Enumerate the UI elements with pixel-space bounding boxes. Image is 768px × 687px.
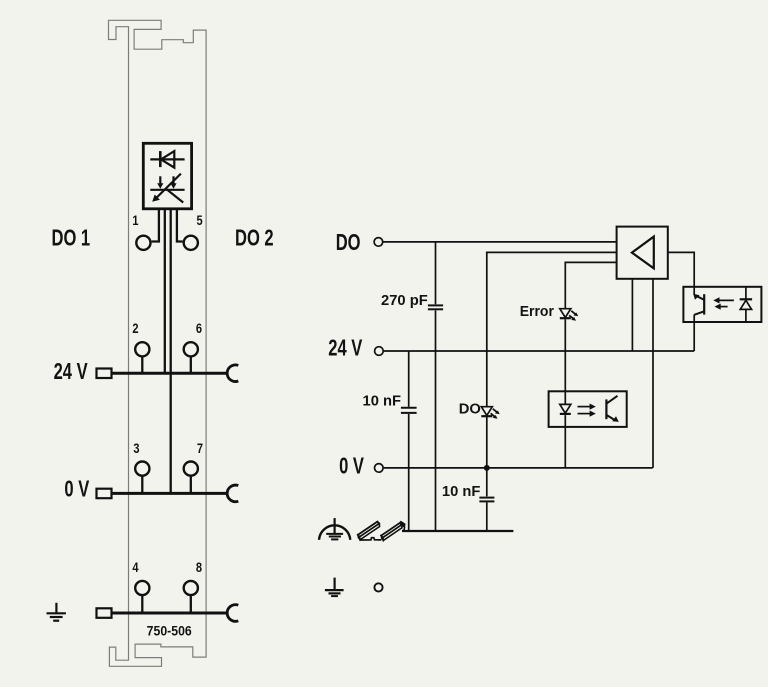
shield rail (402, 530, 513, 532)
pin 3 with stub to 0V rail (141, 476, 143, 494)
LED in optocoupler U4 (560, 404, 571, 414)
wire amplifier lower-left leg to 24V rail (631, 279, 633, 351)
node 0V terminal (375, 464, 384, 473)
svg-text:Error: Error (520, 303, 554, 320)
capacitor 10 nF lower (479, 498, 494, 502)
amplifier U2 box (617, 227, 668, 279)
chassis ground symbol with arc (319, 518, 350, 540)
earth ground symbol (bottom) (325, 578, 344, 597)
svg-text:2: 2 (132, 320, 138, 337)
svg-text:DO 1: DO 1 (52, 226, 91, 251)
24V rail (112, 372, 227, 375)
0V rail (112, 492, 227, 495)
wire 10nF upper branch vertical (408, 351, 410, 531)
svg-text:24 V: 24 V (54, 359, 89, 384)
light arrows in U4 (578, 404, 596, 417)
ground clamp contact (227, 605, 238, 622)
svg-text:10 nF: 10 nF (442, 483, 481, 500)
0V field terminal square (97, 489, 112, 499)
node DO terminal (374, 238, 383, 247)
wire 0V rail (384, 467, 653, 469)
wire 24V rail (384, 350, 695, 352)
LED Error with emission arrows (560, 309, 578, 321)
wire from block to pin 5 (177, 209, 183, 242)
svg-text:3: 3 (133, 440, 139, 457)
electronics block U1 (143, 143, 191, 209)
LED diode in U3 (740, 287, 752, 322)
pin 4 with stub to ground rail (141, 595, 143, 613)
svg-text:DO 2: DO 2 (235, 226, 274, 251)
svg-text:6: 6 (196, 320, 202, 337)
svg-text:750-506: 750-506 (147, 623, 192, 639)
optocoupler U4 box (middle) (549, 391, 627, 427)
LED DO with emission arrows (481, 407, 499, 419)
pin 6 with stub to 24V rail (190, 357, 192, 374)
wire DO line to amplifier (383, 241, 616, 243)
wire amplifier feedback line B (487, 252, 617, 253)
ground symbol label left of module (47, 603, 66, 621)
terminal circle (bottom) (374, 583, 382, 591)
wire optocoupler U3 emitter to 24V rail (693, 315, 695, 351)
24V clamp contact (227, 365, 238, 382)
wire from block to pin 1 (152, 209, 159, 242)
svg-text:10 nF: 10 nF (362, 392, 401, 409)
pin 8 with stub to ground rail (190, 595, 192, 613)
pin 7 with stub to 0V rail (190, 476, 192, 494)
ground rail (112, 612, 227, 615)
wire from block to 0V rail (170, 209, 172, 494)
pin 2 with stub to 24V rail (141, 357, 143, 374)
svg-text:8: 8 (196, 559, 202, 576)
0V clamp contact (227, 485, 238, 502)
svg-text:0 V: 0 V (64, 477, 89, 502)
optocoupler U3 box (top right) (683, 287, 761, 322)
capacitor 10 nF upper (401, 408, 417, 413)
svg-text:24 V: 24 V (328, 336, 363, 361)
light arrows in U3 (713, 297, 734, 309)
wire Error branch vertical (564, 262, 566, 468)
junction dot 0V rail (484, 465, 490, 471)
diode D1 inside block (150, 151, 184, 168)
pin 5 (184, 236, 198, 250)
ground field terminal square (97, 608, 112, 618)
24V field terminal square (97, 369, 112, 379)
wire amplifier lower-right leg to 0V rail (652, 279, 654, 468)
module 750-506 housing outline (109, 20, 207, 666)
wire amplifier output to optocoupler U3 (668, 252, 694, 294)
svg-text:4: 4 (132, 559, 138, 576)
svg-text:DO: DO (459, 400, 481, 417)
suppressor diodes with arrows inside block (150, 174, 184, 203)
amplifier U2 triangle (632, 237, 654, 269)
wire 270pF branch vertical (435, 242, 437, 531)
svg-text:270 pF: 270 pF (381, 292, 428, 309)
wire DO-LED branch vertical (486, 252, 488, 531)
capacitor 270 pF (428, 305, 443, 309)
pin 1 (136, 236, 150, 250)
svg-text:DO: DO (336, 230, 361, 255)
DIN rail icon (357, 521, 406, 542)
svg-text:1: 1 (132, 212, 138, 229)
wire amplifier line C to error branch (565, 262, 616, 263)
phototransistor Q1 in U3 (693, 294, 704, 315)
wire from block to 24V rail (164, 209, 166, 373)
svg-text:7: 7 (197, 440, 203, 457)
svg-text:5: 5 (197, 212, 203, 229)
phototransistor Q2 in U4 (606, 396, 618, 422)
node 24V terminal (375, 347, 384, 356)
svg-text:0 V: 0 V (339, 454, 364, 479)
